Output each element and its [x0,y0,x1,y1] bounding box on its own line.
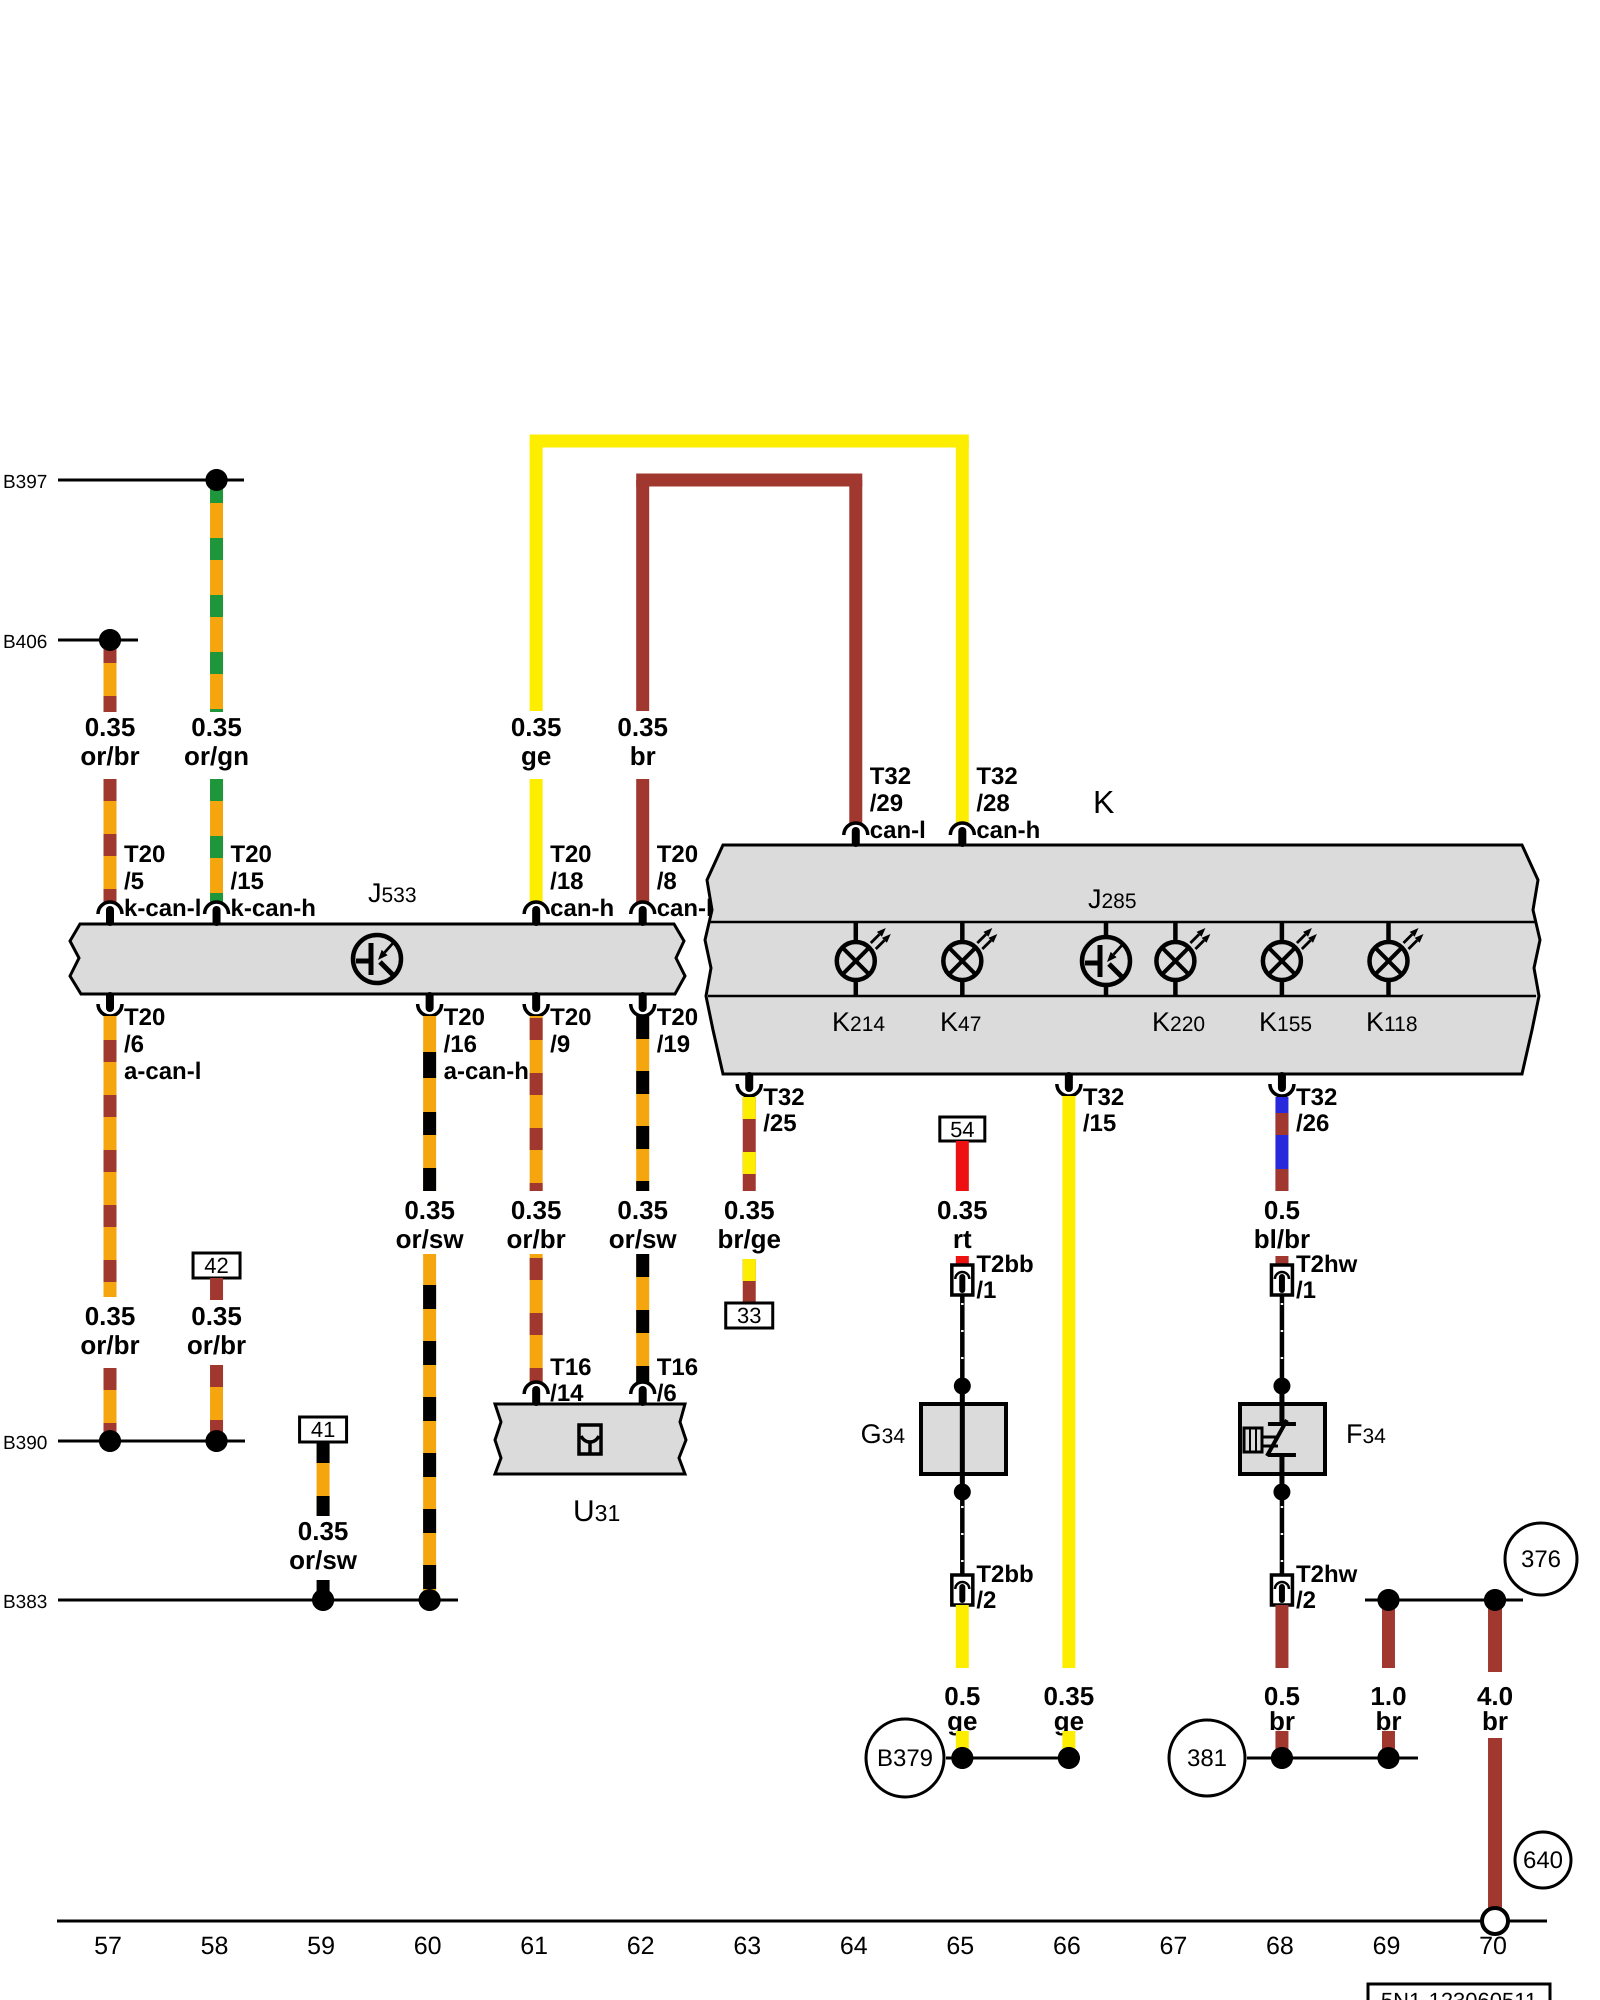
node B390 junction at track 58 [206,1430,228,1452]
wire or/br track 57 (J533 to B390, upper run) [104,1016,117,1297]
svg-text:T2bb: T2bb [976,1251,1033,1278]
control unit J285 body [705,845,1540,1074]
wire ge vertical leg track 61 (lower, to T20/18) [530,779,543,903]
svg-text:/16: /16 [444,1031,477,1058]
wire to G34 [960,1295,965,1380]
svg-text:B390: B390 [3,1433,47,1454]
node 376 junction track 69 [1377,1589,1399,1611]
wire br 1.0 track 69 [1382,1600,1395,1668]
connector T2hw/2 [1271,1575,1292,1605]
control unit J533 body [70,924,685,994]
svg-text:0.5: 0.5 [1264,1195,1300,1225]
svg-text:T32: T32 [976,763,1017,790]
indicator lamp K220 in J285 [1173,923,1178,943]
svg-text:T2hw: T2hw [1296,1251,1358,1278]
svg-text:/1: /1 [1296,1277,1316,1304]
svg-text:/5: /5 [124,868,144,895]
svg-text:68: 68 [1266,1932,1294,1960]
node 381 wire [1247,1757,1418,1760]
wire or/gn track 58 (lower part to T20/15) [210,779,223,903]
svg-text:0.35: 0.35 [617,712,668,742]
junction above F34 [1273,1378,1290,1395]
svg-text:T20: T20 [657,1004,698,1031]
svg-text:/25: /25 [763,1110,796,1137]
svg-text:can-h: can-h [550,895,614,922]
wire br stub track 69 to node 381 [1382,1731,1395,1750]
svg-text:/8: /8 [657,868,677,895]
svg-text:can-l: can-l [657,895,713,922]
svg-text:br: br [1482,1706,1508,1736]
svg-text:/28: /28 [976,790,1009,817]
svg-text:or/gn: or/gn [184,741,249,771]
diagnostic connector U31 body [495,1404,686,1474]
wire or/sw track 60 (label to B383) [423,1254,436,1600]
svg-text:br: br [630,741,656,771]
svg-text:/1: /1 [976,1277,996,1304]
ground ring terminal track 70 [1482,1908,1508,1934]
node 640 circle [1515,1832,1571,1888]
svg-text:/2: /2 [976,1587,996,1614]
svg-text:0.35: 0.35 [511,712,562,742]
node B390 wire [58,1440,245,1443]
svg-text:or/br: or/br [507,1224,566,1254]
svg-text:or/br: or/br [80,1330,139,1360]
terminal box 54 [940,1117,985,1141]
wire br vertical leg track 62 (lower, to T20/8) [636,779,649,903]
wire ge 0.35 can-h horizontal run [530,435,969,448]
U31 symbol [579,1425,601,1454]
node B379 junction track 65 [951,1747,973,1769]
terminal box 33 [726,1303,773,1328]
svg-text:B383: B383 [3,1592,47,1613]
svg-text:/15: /15 [231,868,264,895]
sensor G34 body [921,1404,1006,1474]
node B397 junction [206,469,228,491]
wire or/br track 61 (label to U31) [530,1254,543,1382]
node B390 junction at track 57 [99,1430,121,1452]
wire ge vertical leg track 61 (upper) [530,441,543,711]
pin T16/6 on U31 [631,1382,655,1394]
pin T20/16 a-can-h on J533 bottom [418,1004,442,1016]
terminal box 41 [300,1417,347,1442]
svg-text:376: 376 [1521,1546,1561,1573]
wire or/br track 61 (J533 to label) [530,1016,543,1191]
pin T20/9 no net on J533 bottom [524,1004,548,1016]
svg-text:/14: /14 [550,1380,584,1407]
svg-text:T2hw: T2hw [1296,1561,1358,1588]
svg-text:B406: B406 [3,632,47,653]
wire ge stub track 66 to node B379 [1062,1731,1075,1750]
svg-text:57: 57 [94,1932,122,1960]
wire or/br track 57 (lower run) [104,1368,117,1441]
svg-text:54: 54 [950,1117,974,1142]
svg-text:33: 33 [737,1303,761,1328]
svg-text:U31: U31 [573,1495,620,1528]
wire br 0.5 below T2hw/2 [1275,1605,1288,1668]
pin T32/28 can-h on J285 top [950,823,974,835]
svg-text:T20: T20 [550,1004,591,1031]
svg-text:61: 61 [520,1932,548,1960]
junction below G34 [954,1484,971,1501]
svg-text:can-h: can-h [976,817,1040,844]
wire br stub track 68 to node 381 [1275,1731,1288,1750]
CAN symbol in J533 [353,935,401,983]
wire br stub above T2hw/1 [1275,1256,1288,1266]
wire ge 0.5 below T2bb/2 [956,1605,969,1668]
svg-text:T32: T32 [1296,1084,1337,1111]
wire rt stub above T2bb/1 [956,1256,969,1266]
svg-text:or/sw: or/sw [396,1224,465,1254]
svg-text:0.35: 0.35 [404,1195,455,1225]
node B383 wire [58,1599,458,1602]
svg-text:0.35: 0.35 [85,1301,136,1331]
pin T20/5 k-can-l on J533 top [98,902,122,914]
wire br vertical leg track 62 (upper) [636,480,649,711]
wire or/sw track 60 (J533 to label) [423,1016,436,1191]
svg-text:or/sw: or/sw [609,1224,678,1254]
node B379 circle [866,1719,944,1797]
pin T32/25 on J285 bottom [737,1084,761,1096]
svg-text:/2: /2 [1296,1587,1316,1614]
svg-text:or/br: or/br [187,1330,246,1360]
wire to F34 [1280,1295,1285,1380]
wire br/ge track 63 (label to box 33) [743,1259,756,1303]
svg-text:41: 41 [311,1417,335,1442]
indicator lamp K118 in J285 [1386,923,1391,943]
svg-text:0.35: 0.35 [191,712,242,742]
node 376 wire [1365,1599,1523,1602]
svg-text:T32: T32 [763,1084,804,1111]
svg-text:T32: T32 [870,763,911,790]
svg-text:br/ge: br/ge [717,1224,781,1254]
svg-text:0.35: 0.35 [937,1195,988,1225]
wire br vertical leg track 64 to J285 [849,480,862,823]
node B383 junction at track 60 [419,1589,441,1611]
drawing number box 5N1-123060511 [1368,1984,1550,2000]
junction dots overpaint [206,469,228,491]
junction below F34 [1273,1484,1290,1501]
J285 inner separator upper [708,921,1536,924]
svg-text:T20: T20 [124,1004,165,1031]
wire or/br track 57 (B406 to J533, upper part) [104,645,117,712]
pin T32/26 on J285 bottom [1270,1084,1294,1096]
svg-text:or/br: or/br [80,741,139,771]
svg-text:42: 42 [204,1253,228,1278]
wire sw stub to B383 track 59 [317,1580,330,1600]
svg-text:rt: rt [953,1224,972,1254]
svg-text:T16: T16 [550,1354,591,1381]
svg-text:/18: /18 [550,868,583,895]
svg-text:0.35: 0.35 [191,1301,242,1331]
wire ge 0.35 track 66 (J285 to bottom) [1062,1096,1075,1668]
svg-text:T20: T20 [657,841,698,868]
svg-text:k-can-l: k-can-l [124,895,201,922]
pin T20/6 a-can-l on J533 bottom [98,1004,122,1016]
svg-text:63: 63 [733,1932,761,1960]
svg-text:T20: T20 [550,841,591,868]
svg-text:/19: /19 [657,1031,690,1058]
wire br stub below box 42 [210,1278,223,1300]
svg-text:64: 64 [840,1932,868,1960]
svg-text:70: 70 [1479,1932,1507,1960]
wire or/sw track 62 (J533 to label) [636,1016,649,1191]
svg-text:a-can-l: a-can-l [124,1058,201,1085]
pin T32/15 on J285 bottom [1057,1084,1081,1096]
wire or/sw stub below box 41 [317,1442,330,1516]
junction above G34 [954,1378,971,1395]
wire ge stub to node B379 [956,1731,969,1750]
svg-text:0.35: 0.35 [617,1195,668,1225]
wire br 4.0 track 70 (upper) [1488,1600,1502,1672]
svg-text:59: 59 [307,1932,335,1960]
pin T20/18 can-h on J533 top [524,902,548,914]
svg-text:/29: /29 [870,790,903,817]
pin T16/14 on U31 [524,1382,548,1394]
node 381 circle [1169,1720,1245,1796]
wire or/br track 58 (lower run to B390) [210,1365,223,1441]
pin T32/29 can-l on J285 top [844,823,868,835]
node B379 junction track 66 [1058,1747,1080,1769]
svg-text:58: 58 [201,1932,229,1960]
wire or/sw track 62 (label to U31) [636,1254,649,1382]
svg-text:/9: /9 [550,1031,570,1058]
J285 inner separator lower [708,995,1536,998]
svg-text:62: 62 [627,1932,655,1960]
wire to T2bb/2 [960,1498,965,1575]
connector T2bb/2 [952,1575,973,1605]
svg-text:69: 69 [1373,1932,1401,1960]
svg-text:T20: T20 [444,1004,485,1031]
node 376 junction track 70 [1484,1589,1506,1611]
wire rt track 65 [956,1141,969,1191]
pin T20/8 can-l on J533 top [631,902,655,914]
svg-text:B379: B379 [877,1745,933,1772]
svg-text:T2bb: T2bb [976,1561,1033,1588]
terminal box 42 [193,1253,240,1278]
wire bl/br track 68 (J285 to label) [1275,1097,1288,1191]
svg-text:T20: T20 [231,841,272,868]
svg-text:65: 65 [946,1932,974,1960]
svg-text:/26: /26 [1296,1110,1329,1137]
svg-text:bl/br: bl/br [1254,1224,1310,1254]
node B383 junction at track 59 [312,1589,334,1611]
svg-text:60: 60 [414,1932,442,1960]
node B397 wire [58,479,244,482]
node B406 junction [99,629,121,651]
wire to T2hw/2 [1280,1498,1285,1575]
wire or/br track 57 (lower part to T20/5) [104,779,117,903]
svg-text:66: 66 [1053,1932,1081,1960]
connector T2bb/1 [952,1265,973,1295]
wire or/gn track 58 (B397 to J533, upper part) [210,485,223,712]
svg-text:/6: /6 [657,1380,677,1407]
svg-text:640: 640 [1523,1847,1563,1874]
svg-text:5N1-123060511: 5N1-123060511 [1381,1988,1537,2000]
F34 switch symbol [1279,1386,1284,1424]
svg-text:ge: ge [521,741,551,771]
wire br/ge track 63 (J285 to label) [743,1097,756,1191]
pin T20/15 k-can-h on J533 top [205,902,229,914]
node 381 junction track 69 [1377,1747,1399,1769]
node B406 wire [58,639,138,642]
svg-text:or/sw: or/sw [289,1545,358,1575]
indicator lamp K47 in J285 [960,923,965,943]
wire br 0.35 can-l horizontal run [636,474,862,487]
CAN symbol in J285 [1104,923,1109,938]
pin T20/19 no net on J533 bottom [631,1004,655,1016]
svg-text:a-can-h: a-can-h [444,1058,529,1085]
svg-text:k-can-h: k-can-h [231,895,316,922]
svg-text:67: 67 [1159,1932,1187,1960]
svg-text:/15: /15 [1083,1110,1116,1137]
svg-text:0.35: 0.35 [298,1516,349,1546]
svg-text:T16: T16 [657,1354,698,1381]
indicator lamp K214 in J285 [854,923,859,943]
indicator lamp K155 in J285 [1280,923,1285,943]
node 381 junction track 68 [1271,1747,1293,1769]
wire ge vertical leg track 65 to J285 [956,441,969,823]
svg-text:0.35: 0.35 [511,1195,562,1225]
svg-text:0.35: 0.35 [724,1195,775,1225]
connector T2hw/1 [1271,1265,1292,1295]
svg-text:0.35: 0.35 [85,712,136,742]
bottom rail [57,1920,1547,1923]
switch F34 body [1240,1404,1325,1474]
svg-text:T20: T20 [124,841,165,868]
node B379 wire [946,1757,1080,1760]
node 376 circle [1505,1523,1577,1595]
svg-text:381: 381 [1187,1745,1227,1772]
svg-text:T32: T32 [1083,1084,1124,1111]
svg-text:/6: /6 [124,1031,144,1058]
svg-text:can-l: can-l [870,817,926,844]
wire br 4.0 track 70 (lower to ground) [1488,1738,1502,1909]
svg-text:K: K [1093,784,1114,820]
svg-text:B397: B397 [3,472,47,493]
